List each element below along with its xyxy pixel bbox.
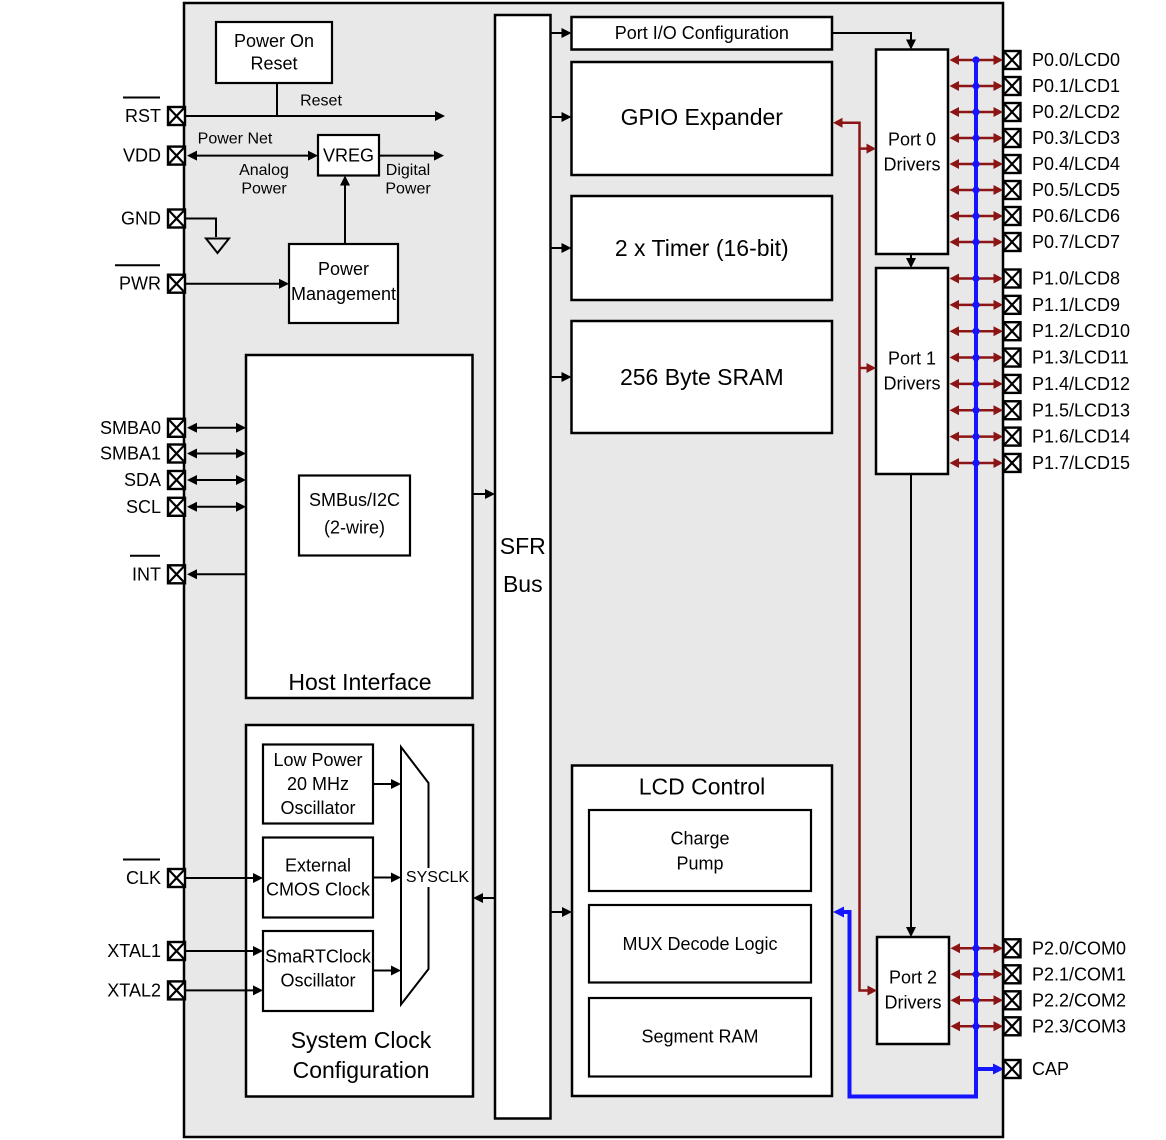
pin RST bbox=[123, 98, 185, 127]
svg-text:SYSCLK: SYSCLK bbox=[406, 869, 469, 886]
pin P1.6/LCD14 bbox=[1004, 427, 1131, 447]
svg-text:P0.2/LCD2: P0.2/LCD2 bbox=[1032, 102, 1120, 122]
svg-text:Port I/O Configuration: Port I/O Configuration bbox=[615, 23, 789, 43]
block MUX Decode Logic bbox=[589, 905, 811, 983]
pin P2.0/COM0 bbox=[1004, 938, 1127, 958]
net P2.1/COM1 pin wire (dark red) bbox=[951, 969, 1004, 979]
svg-text:SMBA1: SMBA1 bbox=[100, 444, 161, 464]
svg-text:SFR: SFR bbox=[500, 533, 546, 559]
svg-text:Low Power: Low Power bbox=[273, 750, 362, 770]
svg-text:Bus: Bus bbox=[503, 571, 543, 597]
net P0.7/LCD7 pin wire (dark red) bbox=[950, 237, 1004, 247]
block Power Management bbox=[289, 244, 398, 323]
block Port 2 Drivers bbox=[877, 937, 949, 1044]
wire External CMOS Clock to mux bbox=[373, 873, 401, 883]
svg-text:CMOS Clock: CMOS Clock bbox=[266, 880, 371, 900]
svg-text:256 Byte SRAM: 256 Byte SRAM bbox=[620, 364, 784, 390]
ground symbol bbox=[206, 239, 229, 254]
net P2.0/COM0 pin wire (dark red) bbox=[951, 943, 1004, 953]
svg-text:P1.0/LCD8: P1.0/LCD8 bbox=[1032, 269, 1120, 289]
net P1.1/LCD9 pin wire (dark red) bbox=[950, 300, 1004, 310]
svg-text:Configuration: Configuration bbox=[293, 1057, 430, 1083]
wire SFR Bus to Port I/O Configuration bbox=[551, 28, 572, 38]
block Low Power 20MHz Oscillator bbox=[263, 745, 373, 824]
svg-text:Port 0: Port 0 bbox=[888, 130, 936, 150]
svg-text:P2.1/COM1: P2.1/COM1 bbox=[1032, 964, 1126, 984]
pin P0.5/LCD5 bbox=[1004, 180, 1121, 200]
svg-text:Power Net: Power Net bbox=[198, 131, 273, 148]
net P1.4/LCD12 pin wire (dark red) bbox=[950, 379, 1004, 389]
svg-text:SMBA0: SMBA0 bbox=[100, 418, 161, 438]
svg-text:MUX Decode Logic: MUX Decode Logic bbox=[622, 934, 777, 954]
block Segment RAM bbox=[589, 998, 811, 1077]
wire VDD to VREG power net bbox=[187, 151, 318, 161]
pin P1.5/LCD13 bbox=[1004, 400, 1131, 420]
svg-text:P1.1/LCD9: P1.1/LCD9 bbox=[1032, 295, 1120, 315]
net P2.3/COM3 pin wire (dark red) bbox=[951, 1021, 1004, 1031]
svg-text:P2.3/COM3: P2.3/COM3 bbox=[1032, 1016, 1126, 1036]
svg-text:P1.5/LCD13: P1.5/LCD13 bbox=[1032, 400, 1130, 420]
svg-text:INT: INT bbox=[132, 564, 161, 584]
block Host Interface bbox=[246, 355, 473, 698]
net P1.2/LCD10 pin wire (dark red) bbox=[950, 326, 1004, 336]
svg-text:XTAL1: XTAL1 bbox=[107, 941, 161, 961]
wire CLK to External CMOS Clock bbox=[186, 873, 264, 883]
svg-text:CAP: CAP bbox=[1032, 1059, 1069, 1079]
pin P2.1/COM1 bbox=[1004, 964, 1127, 984]
net P2.2/COM2 pin wire (dark red) bbox=[951, 995, 1004, 1005]
svg-text:PWR: PWR bbox=[119, 274, 161, 294]
svg-text:SMBus/I2C: SMBus/I2C bbox=[309, 490, 400, 510]
wire SFR Bus to LCD Control bbox=[551, 907, 573, 917]
svg-text:RST: RST bbox=[125, 106, 161, 126]
label Power Net bbox=[198, 131, 273, 148]
pin P2.3/COM3 bbox=[1004, 1016, 1127, 1036]
svg-text:SDA: SDA bbox=[124, 470, 161, 490]
svg-text:Port 2: Port 2 bbox=[889, 968, 937, 988]
pin CLK bbox=[123, 860, 185, 889]
svg-text:Host Interface: Host Interface bbox=[288, 669, 431, 695]
pin P0.4/LCD4 bbox=[1004, 154, 1121, 174]
net LCD segment bus (blue) bbox=[833, 60, 976, 1097]
svg-text:P0.3/LCD3: P0.3/LCD3 bbox=[1032, 128, 1120, 148]
net P0.3/LCD3 pin wire (dark red) bbox=[950, 133, 1004, 143]
svg-text:XTAL2: XTAL2 bbox=[107, 980, 161, 1000]
pin P0.0/LCD0 bbox=[1004, 50, 1121, 70]
block LCD Control bbox=[572, 766, 832, 1097]
svg-text:GPIO Expander: GPIO Expander bbox=[621, 104, 784, 130]
svg-text:LCD Control: LCD Control bbox=[639, 774, 766, 800]
wire SMBA0 to Host Interface bbox=[187, 423, 246, 433]
svg-text:Reset: Reset bbox=[250, 54, 297, 74]
net P1.0/LCD8 pin wire (dark red) bbox=[950, 274, 1004, 284]
svg-text:2 x Timer (16-bit): 2 x Timer (16-bit) bbox=[615, 235, 789, 261]
net P0.0/LCD0 pin wire (dark red) bbox=[950, 55, 1004, 65]
chip body outline bbox=[184, 3, 1003, 1137]
block SMBus/I2C bbox=[299, 476, 410, 556]
net P0.4/LCD4 pin wire (dark red) bbox=[950, 159, 1004, 169]
net P0.6/LCD6 pin wire (dark red) bbox=[950, 211, 1004, 221]
pin CAP bbox=[1004, 1059, 1070, 1079]
wire SFR Bus to GPIO Expander bbox=[551, 112, 572, 122]
pin P1.7/LCD15 bbox=[1004, 453, 1131, 473]
svg-text:System Clock: System Clock bbox=[291, 1027, 432, 1053]
svg-text:P1.3/LCD11: P1.3/LCD11 bbox=[1032, 348, 1129, 368]
block Port 1 Drivers bbox=[876, 268, 948, 474]
net P1.5/LCD13 pin wire (dark red) bbox=[950, 405, 1004, 415]
label Reset bbox=[300, 93, 342, 110]
svg-text:Segment RAM: Segment RAM bbox=[641, 1027, 758, 1047]
wire RST reset net bbox=[186, 111, 446, 121]
wire Low Power Oscillator to mux bbox=[373, 779, 401, 789]
svg-text:External: External bbox=[285, 856, 351, 876]
svg-text:Power: Power bbox=[241, 181, 287, 198]
svg-text:20 MHz: 20 MHz bbox=[287, 774, 349, 794]
svg-text:P1.6/LCD14: P1.6/LCD14 bbox=[1032, 427, 1130, 447]
svg-text:Pump: Pump bbox=[676, 854, 723, 874]
wire Host Interface to SFR Bus bbox=[473, 489, 496, 499]
pin P0.1/LCD1 bbox=[1004, 76, 1121, 96]
svg-text:P2.0/COM0: P2.0/COM0 bbox=[1032, 938, 1126, 958]
svg-text:P0.1/LCD1: P0.1/LCD1 bbox=[1032, 76, 1120, 96]
pin P0.6/LCD6 bbox=[1004, 206, 1121, 226]
pin XTAL1 bbox=[107, 941, 185, 961]
svg-text:P0.0/LCD0: P0.0/LCD0 bbox=[1032, 50, 1120, 70]
net P0.5/LCD5 pin wire (dark red) bbox=[950, 185, 1004, 195]
pin XTAL2 bbox=[107, 980, 185, 1000]
svg-text:Drivers: Drivers bbox=[885, 993, 942, 1013]
svg-text:SCL: SCL bbox=[126, 497, 161, 517]
svg-text:Oscillator: Oscillator bbox=[280, 971, 355, 991]
pin P1.4/LCD12 bbox=[1004, 374, 1131, 394]
svg-text:Reset: Reset bbox=[300, 93, 342, 110]
pin PWR bbox=[115, 265, 185, 294]
pin SMBA0 bbox=[100, 418, 185, 438]
svg-text:Power: Power bbox=[385, 181, 431, 198]
pin P0.2/LCD2 bbox=[1004, 102, 1121, 122]
pin SCL bbox=[126, 497, 185, 517]
net P1.6/LCD14 pin wire (dark red) bbox=[950, 432, 1004, 442]
block VREG U-vreg bbox=[318, 135, 379, 176]
svg-text:P0.5/LCD5: P0.5/LCD5 bbox=[1032, 180, 1120, 200]
svg-text:P1.7/LCD15: P1.7/LCD15 bbox=[1032, 453, 1130, 473]
block Power On Reset bbox=[216, 22, 332, 83]
wire Port I/O Configuration to Port 0 Drivers bbox=[832, 33, 916, 50]
pin GND bbox=[121, 209, 185, 229]
svg-text:GND: GND bbox=[121, 209, 161, 229]
svg-text:(2-wire): (2-wire) bbox=[324, 518, 385, 538]
net GPIO bus branch to Port 0 Drivers bbox=[860, 144, 877, 154]
wire VREG digital power output bbox=[379, 151, 444, 161]
block Port I/O Configuration bbox=[572, 17, 833, 50]
wire Port 1 Drivers to Port 2 Drivers bbox=[906, 474, 916, 937]
svg-text:Analog: Analog bbox=[239, 162, 289, 179]
wire SDA to Host Interface bbox=[187, 475, 246, 485]
block 256 Byte SRAM bbox=[572, 321, 833, 433]
svg-text:SmaRTClock: SmaRTClock bbox=[265, 947, 372, 967]
block Charge Pump bbox=[589, 810, 811, 891]
net GPIO bus branch to Port 1 Drivers bbox=[860, 363, 877, 373]
wire PWR to Power Management bbox=[186, 279, 290, 289]
svg-text:Digital: Digital bbox=[386, 162, 430, 179]
block System Clock Configuration bbox=[246, 725, 473, 1097]
label Analog Power bbox=[239, 162, 289, 198]
wire Power Management to VREG bbox=[340, 176, 350, 245]
wire SCL to Host Interface bbox=[187, 502, 246, 512]
svg-text:Management: Management bbox=[291, 284, 396, 304]
wire Host Interface to INT bbox=[187, 569, 246, 579]
pin P0.3/LCD3 bbox=[1004, 128, 1121, 148]
block External CMOS Clock bbox=[263, 838, 373, 918]
pin P1.2/LCD10 bbox=[1004, 321, 1131, 341]
block 2 x Timer (16-bit) bbox=[572, 196, 833, 300]
pin INT bbox=[130, 556, 185, 585]
net P1.7/LCD15 pin wire (dark red) bbox=[950, 458, 1004, 468]
net blue branch to CAP pin bbox=[976, 1064, 1004, 1075]
svg-text:Power On: Power On bbox=[234, 31, 314, 51]
clock mux selector bbox=[401, 747, 429, 1005]
svg-text:CLK: CLK bbox=[126, 868, 161, 888]
pin SMBA1 bbox=[100, 444, 185, 464]
wire SmaRTClock Oscillator to mux bbox=[373, 966, 401, 976]
pin P0.7/LCD7 bbox=[1004, 232, 1121, 252]
svg-text:P0.7/LCD7: P0.7/LCD7 bbox=[1032, 232, 1120, 252]
wire Power On Reset to RST net bbox=[276, 83, 278, 115]
wire SFR Bus to Timer bbox=[551, 243, 572, 253]
label Digital Power bbox=[385, 162, 431, 198]
pin SDA bbox=[124, 470, 185, 490]
block Port 0 Drivers bbox=[876, 50, 948, 255]
net P0.2/LCD2 pin wire (dark red) bbox=[950, 107, 1004, 117]
pin P1.3/LCD11 bbox=[1004, 348, 1129, 368]
label SYSCLK bbox=[406, 868, 469, 887]
svg-text:Power: Power bbox=[318, 259, 369, 279]
svg-text:VDD: VDD bbox=[123, 146, 161, 166]
wire GND stub bbox=[186, 219, 217, 238]
net GPIO expander bus (dark red) bbox=[833, 118, 877, 996]
net P0.1/LCD1 pin wire (dark red) bbox=[950, 81, 1004, 91]
svg-text:P0.6/LCD6: P0.6/LCD6 bbox=[1032, 206, 1120, 226]
svg-text:P1.2/LCD10: P1.2/LCD10 bbox=[1032, 321, 1130, 341]
svg-text:Port 1: Port 1 bbox=[888, 349, 936, 369]
SFR Bus block bbox=[495, 15, 551, 1119]
pin VDD bbox=[123, 146, 185, 166]
svg-text:P1.4/LCD12: P1.4/LCD12 bbox=[1032, 374, 1130, 394]
pin P2.2/COM2 bbox=[1004, 990, 1127, 1010]
svg-text:VREG: VREG bbox=[323, 146, 374, 166]
svg-text:Charge: Charge bbox=[670, 829, 729, 849]
block GPIO Expander bbox=[572, 62, 833, 175]
wire SFR Bus to System Clock Configuration bbox=[473, 893, 495, 903]
block SmaRTClock Oscillator bbox=[263, 931, 373, 1011]
svg-text:Drivers: Drivers bbox=[884, 374, 941, 394]
svg-text:Drivers: Drivers bbox=[884, 155, 941, 175]
wire XTAL1 to SmaRTClock Oscillator bbox=[186, 946, 264, 956]
wire Port 0 Drivers to Port 1 Drivers bbox=[906, 254, 916, 268]
wire SFR Bus to SRAM bbox=[551, 372, 572, 382]
pin P1.1/LCD9 bbox=[1004, 295, 1121, 315]
svg-text:P2.2/COM2: P2.2/COM2 bbox=[1032, 990, 1126, 1010]
net P1.3/LCD11 pin wire (dark red) bbox=[950, 353, 1004, 363]
svg-text:Oscillator: Oscillator bbox=[280, 798, 355, 818]
pin P1.0/LCD8 bbox=[1004, 269, 1121, 289]
svg-text:P0.4/LCD4: P0.4/LCD4 bbox=[1032, 154, 1120, 174]
wire SMBA1 to Host Interface bbox=[187, 449, 246, 459]
wire XTAL2 to SmaRTClock Oscillator bbox=[186, 985, 264, 995]
